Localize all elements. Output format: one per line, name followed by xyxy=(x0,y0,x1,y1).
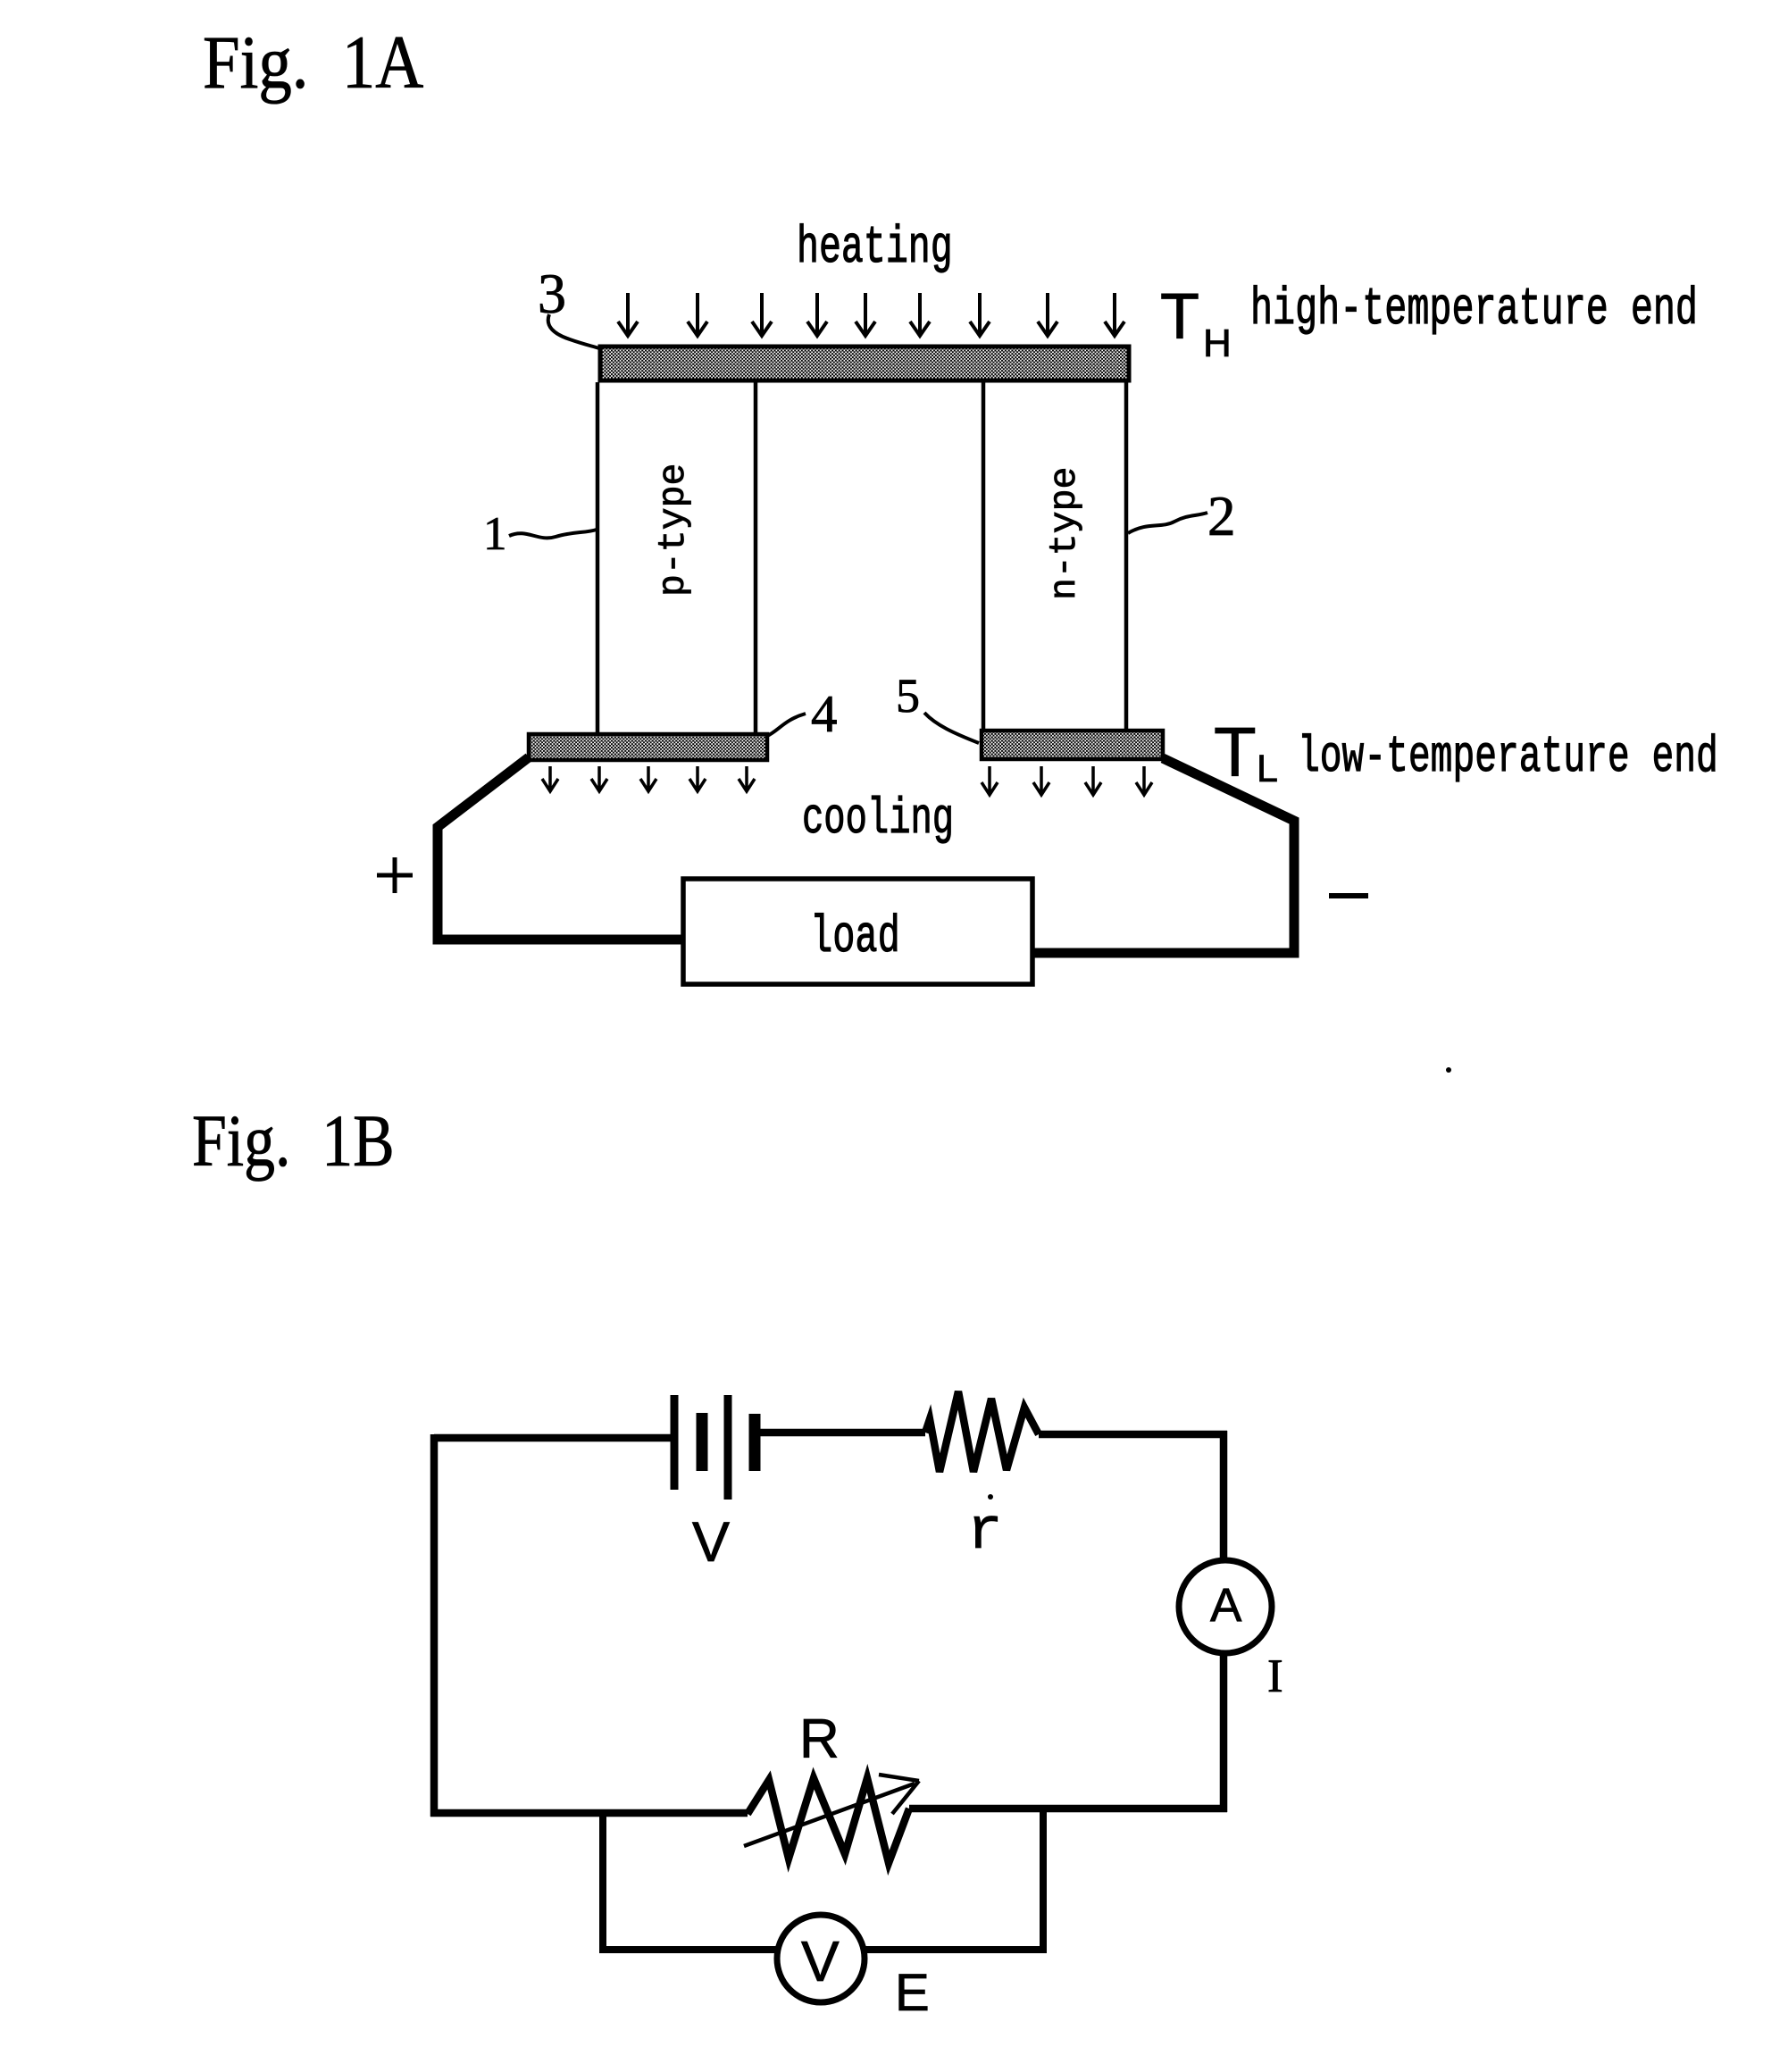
label 3 leader xyxy=(548,314,599,348)
stray dot xyxy=(1446,1067,1451,1073)
wire top-left segment xyxy=(434,1434,672,1442)
svg-text:p-type: p-type xyxy=(653,464,695,597)
minus terminal xyxy=(1329,893,1368,898)
wire from cold plate 5 to load xyxy=(1032,758,1294,953)
svg-text:H: H xyxy=(1203,322,1232,365)
T_L label xyxy=(1214,713,1278,791)
svg-text:n-type: n-type xyxy=(1044,467,1086,600)
variable resistor R xyxy=(748,1778,909,1863)
label 5 leader xyxy=(924,713,979,743)
p-type leg 1 xyxy=(597,382,756,734)
svg-text:T: T xyxy=(1160,281,1199,353)
svg-text:high-temperature end: high-temperature end xyxy=(1250,281,1698,340)
resistor r xyxy=(925,1391,1039,1472)
svg-text:1: 1 xyxy=(483,508,507,560)
cold plate 5 xyxy=(982,731,1163,759)
dot above r xyxy=(988,1494,993,1500)
svg-text:5: 5 xyxy=(896,669,920,723)
wire resistor to top-right corner xyxy=(1039,1431,1227,1439)
svg-text:heating: heating xyxy=(797,220,953,279)
svg-text:R: R xyxy=(799,1709,840,1770)
wire left vertical xyxy=(430,1434,439,1817)
svg-text:3: 3 xyxy=(538,262,566,325)
sub-loop wire to voltmeter xyxy=(599,1946,779,1953)
svg-text:L: L xyxy=(1257,748,1278,790)
svg-text:E: E xyxy=(895,1964,930,2022)
svg-text:Fig. 1B: Fig. 1B xyxy=(192,1099,395,1182)
right cooling arrows xyxy=(982,766,1152,795)
svg-text:low-temperature end: low-temperature end xyxy=(1298,729,1718,788)
wire right vertical lower xyxy=(1220,1652,1228,1812)
wire bottom-right segment xyxy=(909,1805,1227,1813)
svg-text:2: 2 xyxy=(1207,485,1236,547)
ammeter A xyxy=(1179,1560,1272,1653)
n-type leg 2 xyxy=(983,382,1126,731)
svg-text:r: r xyxy=(967,1499,1003,1566)
svg-text:Fig. 1A: Fig. 1A xyxy=(203,21,423,104)
label 4 leader xyxy=(767,714,806,736)
label 1 leader xyxy=(509,530,597,538)
variable resistor arrow xyxy=(744,1775,919,1846)
wire battery to resistor r xyxy=(758,1429,925,1437)
wire right vertical upper xyxy=(1220,1431,1228,1561)
sub-loop left vertical wire xyxy=(599,1809,606,1950)
svg-text:I: I xyxy=(1267,1650,1283,1702)
sub-loop wire from voltmeter xyxy=(864,1946,1047,1953)
label 2 leader xyxy=(1128,513,1207,533)
T_H label xyxy=(1160,281,1232,365)
load box xyxy=(683,879,1032,984)
voltmeter V xyxy=(777,1915,865,2002)
wire from cold plate 4 to load xyxy=(438,757,683,940)
svg-text:load: load xyxy=(810,908,900,968)
svg-text:A: A xyxy=(1210,1579,1242,1632)
hot-side electrode plate 3 xyxy=(600,347,1129,380)
svg-text:V: V xyxy=(801,1929,840,1993)
left cooling arrows xyxy=(542,766,755,791)
cold plate 4 xyxy=(529,734,767,760)
svg-text:V: V xyxy=(692,1511,730,1574)
svg-text:cooling: cooling xyxy=(802,790,954,848)
sub-loop right vertical wire xyxy=(1040,1809,1047,1950)
wire bottom-left segment xyxy=(430,1809,748,1817)
svg-text:T: T xyxy=(1214,713,1257,791)
svg-text:4: 4 xyxy=(811,684,838,743)
heating arrows xyxy=(618,293,1124,336)
battery V xyxy=(674,1395,755,1500)
plus terminal xyxy=(377,857,413,893)
